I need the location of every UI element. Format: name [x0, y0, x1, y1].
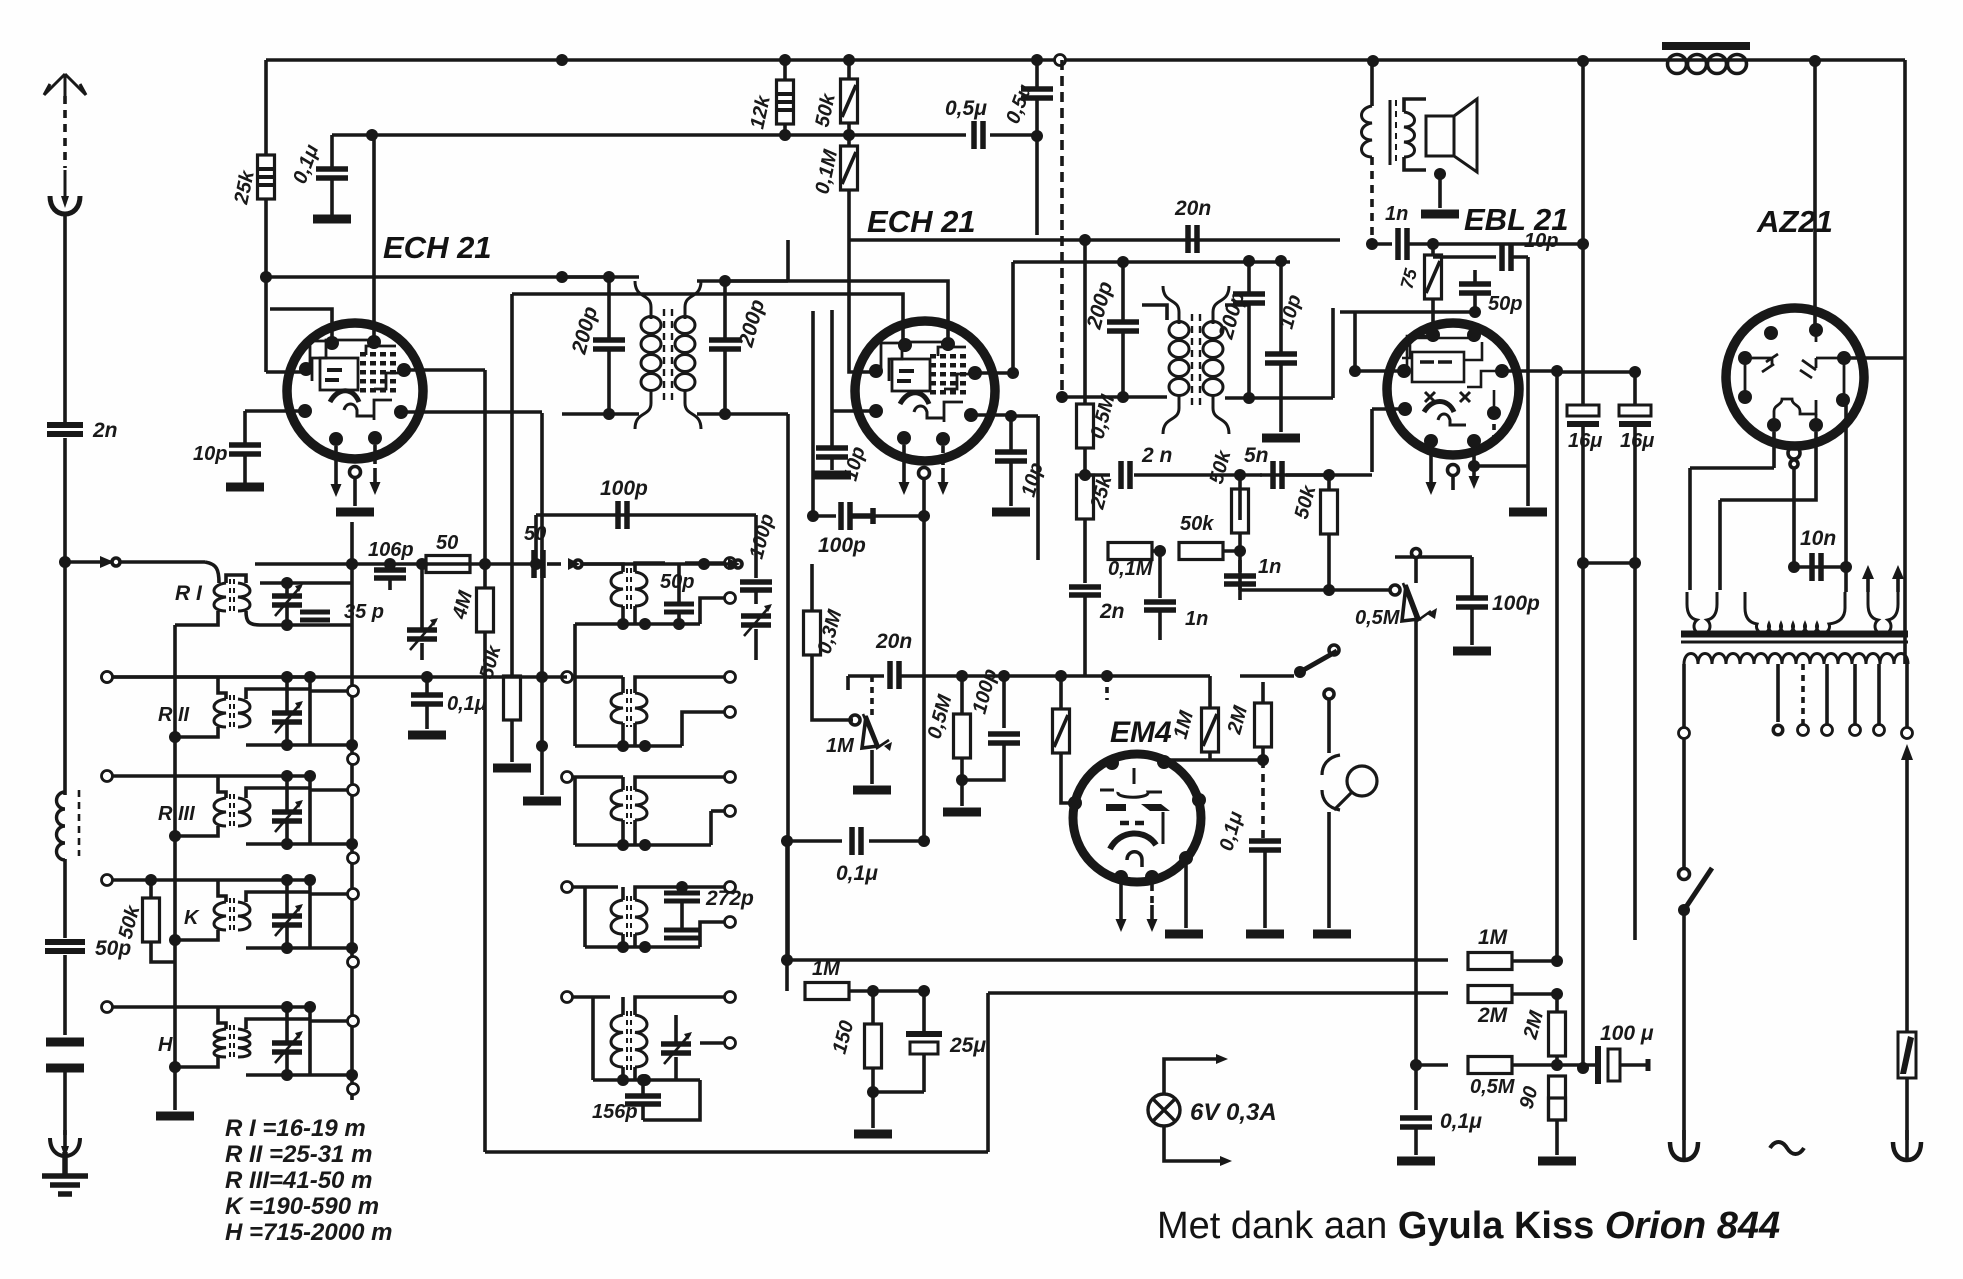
- svg-text:H: H: [158, 1034, 173, 1056]
- wire 0.1u top lead: [330, 135, 334, 168]
- capacitor 10p IF2: [1265, 354, 1297, 363]
- junction: [1809, 55, 1821, 67]
- tube V3 pins: [1397, 328, 1509, 448]
- tube V3 cathode terminal: [1448, 465, 1459, 476]
- wire osc3 top: [573, 775, 623, 779]
- junction 100u: [1577, 1062, 1589, 1074]
- svg-text:1n: 1n: [1185, 608, 1208, 630]
- wire lamp top lead: [1327, 700, 1331, 753]
- coil RII windings: [214, 695, 250, 731]
- capacitor 272p b: [664, 930, 700, 938]
- svg-text:2n: 2n: [92, 419, 118, 442]
- wire antenna down: [63, 562, 67, 795]
- wire 10p V2 column: [830, 310, 834, 446]
- svg-text:200p: 200p: [734, 297, 769, 350]
- wire bottom return up: [986, 993, 990, 1152]
- junction K grid2: [346, 942, 358, 954]
- trimmer osc pad: [741, 604, 772, 636]
- wire 5n out: [1286, 473, 1372, 477]
- wire to fuse: [1905, 760, 1909, 1032]
- terminal row2 left: [102, 672, 113, 683]
- wire antenna row: [65, 560, 205, 564]
- svg-text:2M: 2M: [1223, 702, 1252, 737]
- wire OT primary bottom: [1370, 157, 1374, 244]
- wire RIII input: [113, 774, 310, 778]
- wire K prim return: [175, 930, 218, 940]
- resistor 50k B: [1179, 543, 1223, 560]
- wire V2 triode anode out: [975, 371, 1013, 375]
- wire 50k middle lead: [847, 123, 851, 146]
- svg-text:100p: 100p: [600, 477, 648, 500]
- ground dial lamp: [1313, 932, 1351, 936]
- junction: [639, 1074, 651, 1086]
- switch contact arrows: [568, 558, 582, 570]
- capacitor 0.1u AF: [852, 827, 861, 855]
- wire 4M bottom lead: [483, 632, 487, 660]
- ground 90: [1538, 1159, 1576, 1163]
- wire 1M out: [1512, 959, 1557, 963]
- wire osc3 top right: [680, 775, 724, 779]
- wire 10p IF2 top: [1279, 261, 1283, 352]
- wire K sec bottom: [246, 946, 352, 950]
- wire RIII sw1: [310, 788, 347, 792]
- junction 0.1u pad: [421, 671, 433, 683]
- junction: [1840, 561, 1852, 573]
- capacitor 50p osc: [664, 604, 694, 612]
- wire V1 heater lead left: [334, 446, 338, 470]
- junction: [779, 54, 791, 66]
- wire pot down: [1414, 620, 1418, 680]
- terminal osc row5: [562, 992, 573, 1003]
- wire H sec top: [246, 1019, 310, 1029]
- terminal RIII sw1: [348, 785, 359, 796]
- junction: [779, 129, 791, 141]
- wire 0.3M top lead: [810, 564, 814, 611]
- capacitor 50p antenna: [45, 942, 85, 951]
- wire RII sec bottom: [246, 743, 352, 747]
- wire V2 anode up: [1011, 262, 1015, 373]
- coil osc row5: [611, 1011, 647, 1071]
- junction: [1257, 754, 1269, 766]
- capacitor 10p V2: [816, 448, 848, 457]
- wire 1n left: [1372, 242, 1392, 246]
- svg-text:25k: 25k: [230, 168, 259, 207]
- ground RF bank: [156, 1114, 194, 1118]
- terminal osc row4 top: [725, 882, 736, 893]
- junction: [1056, 391, 1068, 403]
- resistor 50k: [841, 79, 858, 123]
- wire 50p down: [63, 955, 67, 1035]
- wire 16u a bottom rail: [1581, 426, 1585, 1068]
- junction 0.1u AF: [781, 835, 793, 847]
- wire trimmer K leads: [285, 880, 289, 948]
- wire osc1 bottoms: [623, 606, 635, 624]
- junction: [1427, 238, 1439, 250]
- junction RI grid: [346, 558, 358, 570]
- coil osc row4: [611, 896, 647, 938]
- power transformer core: [1681, 634, 1908, 642]
- junction K grid bus: [304, 874, 316, 886]
- junction: [1551, 988, 1563, 1000]
- wire 100p EBL row: [1395, 555, 1472, 559]
- junction: [1469, 306, 1481, 318]
- wire gnd rail right: [1633, 563, 1637, 940]
- heater arrow EM4 left: [1116, 905, 1127, 932]
- svg-text:R II =25-31 m: R II =25-31 m: [225, 1141, 372, 1168]
- capacitor 2n b: [1069, 587, 1101, 595]
- svg-text:K =190-590 m: K =190-590 m: [225, 1193, 379, 1220]
- wire H prim top: [218, 1007, 226, 1029]
- wire heater lead b: [1896, 577, 1900, 592]
- junction: [384, 558, 396, 570]
- wire 200p IF2a top: [1121, 262, 1125, 320]
- wire IF1 cap1 top lead: [607, 277, 611, 338]
- wire heater tap down: [1792, 468, 1796, 567]
- band switch lever: [1294, 645, 1339, 678]
- junction: [536, 740, 548, 752]
- wire EBL heater r: [1472, 448, 1476, 462]
- wire right edge vertical: [1903, 60, 1907, 358]
- junction: [918, 510, 930, 522]
- junction: [617, 839, 629, 851]
- terminal tap2: [1798, 725, 1809, 736]
- wire 90 bottom: [1555, 1120, 1559, 1155]
- heater arrow EM4 right: [1147, 905, 1158, 932]
- earth plug hook: [50, 1130, 80, 1158]
- wire 200p IF2a bottom: [1121, 331, 1125, 397]
- svg-text:0,3M: 0,3M: [814, 606, 847, 656]
- wire 50k bottom lead: [151, 942, 175, 962]
- capacitor RI padding: [300, 612, 330, 620]
- wire 1n b bottom: [1158, 610, 1162, 640]
- wire 100pb lead: [754, 590, 758, 604]
- svg-text:0,1M: 0,1M: [1108, 558, 1154, 580]
- wire 50p leads: [677, 563, 681, 624]
- wire 10p IF2 bottom: [1279, 363, 1283, 432]
- wire 0.1u pad top: [425, 677, 429, 694]
- wire IF2 right up: [1331, 308, 1335, 398]
- svg-text:2 n: 2 n: [1141, 444, 1172, 467]
- svg-text:4M: 4M: [448, 587, 477, 622]
- wire 16u join: [1583, 561, 1635, 565]
- junction: [1551, 1059, 1563, 1071]
- wire OT primary top: [1370, 62, 1374, 106]
- junction: [698, 558, 710, 570]
- wire bias to ground: [871, 1092, 875, 1128]
- wire osc mixer row: [255, 562, 533, 566]
- coil osc row3: [611, 786, 647, 824]
- resistor 50 ohm: [426, 556, 470, 573]
- junction: [1577, 55, 1589, 67]
- junction: [1629, 557, 1641, 569]
- wire RIII prim top: [218, 776, 226, 798]
- wire osc4 top right: [682, 885, 724, 889]
- junction: [281, 1001, 293, 1013]
- capacitor 100p b: [740, 582, 772, 590]
- wire osc3 bottoms: [623, 820, 635, 845]
- junction: [719, 408, 731, 420]
- svg-text:50k: 50k: [1206, 448, 1236, 487]
- wire osc boundary down: [483, 660, 487, 1152]
- wire IF1 bottom left: [562, 412, 639, 416]
- wire 4M top lead: [483, 370, 487, 588]
- tube V1 ECH21 internal electrodes: [310, 340, 402, 420]
- junction H bus: [169, 1061, 181, 1073]
- wire osc5 left link: [591, 997, 595, 1080]
- svg-text:R II: R II: [158, 704, 190, 726]
- ground 0.1u: [313, 217, 351, 221]
- wire RII prim return: [175, 727, 218, 737]
- wire RF bank left bus: [173, 625, 177, 1110]
- wire IF1 top right: [697, 279, 788, 283]
- svg-text:200p: 200p: [1214, 289, 1249, 342]
- wire 25k bottom: [1083, 519, 1087, 551]
- tube V2 grid dots: [930, 354, 966, 395]
- junction: [1079, 469, 1091, 481]
- wire V2 triode grid: [849, 240, 876, 372]
- junction: [719, 275, 731, 287]
- terminal osc row2 top: [725, 672, 736, 683]
- junction 0.5M if: [1079, 234, 1091, 246]
- wire RII input: [113, 675, 310, 679]
- IF transformer 1 windings: [635, 281, 701, 429]
- wire 2n branch: [1085, 473, 1110, 477]
- wire 1n b stem: [1158, 551, 1162, 598]
- wire B+ top bus: [266, 58, 1685, 62]
- junction: [281, 619, 293, 631]
- wire 10p top lead: [243, 411, 247, 444]
- junction: [1577, 238, 1589, 250]
- svg-text:2M: 2M: [1519, 1007, 1548, 1042]
- wire heater lead a: [1866, 577, 1870, 592]
- wire to earth: [63, 1072, 67, 1135]
- junction: [843, 129, 855, 141]
- resistor 75: [1425, 255, 1442, 299]
- power transformer HV winding left: [1687, 592, 1717, 634]
- wire osc1 bottom row: [575, 622, 700, 626]
- junction: [1005, 410, 1017, 422]
- wire lamp bottom lead: [1327, 812, 1331, 928]
- capacitor 0.5u: [974, 121, 983, 149]
- volume pot 1M arrow: [850, 714, 892, 751]
- wire V1 osc anode lead: [401, 410, 542, 414]
- capacitor 2n antenna: [47, 425, 83, 434]
- svg-text:5n: 5n: [1244, 444, 1269, 467]
- wire screen bus: [332, 133, 966, 137]
- junction RII grid bus: [304, 671, 316, 683]
- capacitor 100p EBL: [1456, 598, 1488, 607]
- wire long vertical IF1 to AF bus: [786, 414, 790, 960]
- wire band A: [266, 275, 609, 279]
- wire 0.1M bottom lead: [847, 190, 851, 240]
- wire H input: [113, 1005, 310, 1009]
- wire RII prim top: [218, 677, 226, 699]
- capacitor 200p IF1a: [593, 340, 625, 349]
- capacitor 100p det: [988, 734, 1020, 743]
- power switch: [1678, 868, 1712, 916]
- junction: [956, 774, 968, 786]
- wire EBL row 312: [1340, 310, 1433, 314]
- junction: [639, 941, 651, 953]
- volume pot 0.5M: [1390, 583, 1437, 621]
- wire antenna lead: [63, 96, 67, 168]
- junction: [1243, 255, 1255, 267]
- resistor 0.1M det: [1108, 543, 1152, 560]
- wire osc left links: [573, 677, 577, 845]
- resistor 50k A: [1232, 489, 1249, 533]
- wire 2M vert bottom: [1555, 1056, 1559, 1065]
- capacitor 200p IF2b: [1233, 294, 1265, 303]
- wire V1 heater lead right: [373, 445, 377, 468]
- wire EBL heater l: [1429, 448, 1433, 468]
- wire 50kA bottom: [1238, 533, 1242, 572]
- svg-text:50k: 50k: [811, 91, 840, 129]
- wire 25u top lead: [922, 991, 926, 1031]
- wire 2M col link: [1555, 994, 1559, 1012]
- AC tilde: [1770, 1142, 1804, 1154]
- wire lamp bottom arrow lead: [1164, 1126, 1220, 1161]
- wire osc5 top right: [680, 995, 724, 999]
- svg-text:50k: 50k: [115, 903, 145, 942]
- wire 0.1u out bottom: [1414, 1127, 1418, 1155]
- capacitor 156p: [625, 1096, 661, 1104]
- stub: [1555, 1074, 1559, 1078]
- junction: [781, 954, 793, 966]
- wire 20n stub: [846, 676, 850, 690]
- wire 16u b lead: [1633, 372, 1637, 405]
- wire 100p to cathode: [873, 514, 924, 518]
- capacitor 0.1u EM4: [1249, 841, 1281, 850]
- terminal osc row3 top: [725, 772, 736, 783]
- wire trimmer lead: [754, 629, 758, 660]
- wire lamp top arrow lead: [1164, 1059, 1216, 1094]
- stub: [1085, 549, 1086, 553]
- wire 75 top lead: [1431, 244, 1435, 255]
- junction: [1234, 545, 1246, 557]
- junction: [639, 839, 651, 851]
- coil RIII windings: [214, 794, 250, 830]
- svg-text:6V 0,3A: 6V 0,3A: [1190, 1099, 1277, 1126]
- terminal H sw2: [348, 1084, 359, 1095]
- svg-text:0,1μ: 0,1μ: [1216, 809, 1248, 853]
- wire V2 right down: [1036, 416, 1040, 560]
- wire IF2 top right: [1123, 260, 1290, 264]
- trimmer 35p: [407, 618, 438, 650]
- svg-text:1M: 1M: [1478, 926, 1508, 949]
- mains plug pin a: [1670, 1130, 1698, 1160]
- wire EBL left down: [1370, 409, 1374, 472]
- ground osc bus: [523, 799, 561, 803]
- wire 0.1u bottom lead: [330, 178, 334, 216]
- capacitor 1n top: [1398, 228, 1407, 260]
- svg-text:25k: 25k: [1086, 473, 1116, 513]
- wire RIII prim return: [175, 826, 218, 836]
- wire osc1 sec top: [635, 563, 665, 572]
- power transformer secondary winding: [1684, 654, 1908, 665]
- junction: [1366, 238, 1378, 250]
- wire V2 grid3: [832, 409, 876, 413]
- wire osc4 to term: [700, 922, 724, 947]
- ground EM4: [1165, 932, 1203, 936]
- wire 0.5M-25k link: [1083, 448, 1087, 475]
- capacitor 100p osc: [618, 501, 627, 529]
- wire K sw1: [310, 892, 347, 896]
- coil osc row1: [611, 568, 647, 610]
- svg-text:100 μ: 100 μ: [1600, 1022, 1654, 1045]
- wire pot top link: [1414, 557, 1418, 583]
- svg-text:K: K: [184, 907, 200, 929]
- wire EBL cathode out: [1502, 369, 1557, 373]
- wire osc2 top right: [675, 675, 724, 679]
- capacitor 272p: [664, 893, 700, 901]
- tube EM4 pins: [1068, 755, 1206, 884]
- wire osc1 left down: [573, 624, 577, 677]
- svg-text:100p: 100p: [746, 512, 779, 562]
- wire RI secondary bottom: [260, 623, 352, 627]
- svg-text:0,1μ: 0,1μ: [836, 862, 878, 885]
- terminal K sw1: [348, 889, 359, 900]
- wire EBL beam link: [1492, 413, 1496, 440]
- terminal osc row1 top: [725, 558, 736, 569]
- resistor 2M fb: [1468, 986, 1512, 1003]
- ground 100p EBL: [1453, 649, 1491, 653]
- wire osc3 to term: [711, 809, 724, 813]
- svg-text:1M: 1M: [1170, 707, 1199, 741]
- wire osc5b stub: [700, 1041, 724, 1045]
- svg-text:ECH 21: ECH 21: [383, 230, 492, 265]
- terminal tap3: [1822, 725, 1833, 736]
- arrow lamp top: [1216, 1054, 1228, 1064]
- wire RI sec out: [246, 611, 260, 625]
- svg-text:2M: 2M: [1477, 1004, 1508, 1027]
- junction RIII grid bus: [304, 770, 316, 782]
- tube V4 pins: [1738, 323, 1851, 432]
- wire 10n row: [1794, 565, 1846, 569]
- svg-text:50k: 50k: [1291, 483, 1321, 522]
- wire 272p link: [680, 901, 684, 930]
- wire AF pot feed: [1240, 588, 1390, 592]
- svg-text:2n: 2n: [1099, 600, 1125, 623]
- resistor 4M: [477, 588, 494, 632]
- junction 50k top: [145, 874, 157, 886]
- wire speaker return: [1438, 170, 1442, 208]
- junction: [1349, 365, 1361, 377]
- svg-text:20n: 20n: [1174, 197, 1211, 220]
- terminal osc row3b: [725, 806, 736, 817]
- tube EM4 envelope: [1073, 754, 1201, 882]
- junction: [998, 670, 1010, 682]
- wire HV left down: [1688, 468, 1692, 590]
- antenna symbol: [44, 74, 86, 96]
- wire RF bank grid bus: [350, 522, 354, 1100]
- trimmer RIII: [272, 800, 303, 832]
- svg-text:150: 150: [829, 1018, 859, 1056]
- wire trimmer H leads: [285, 1007, 289, 1075]
- capacitor 10n: [1812, 553, 1821, 581]
- resistor 1M EM4 right: [1202, 708, 1219, 752]
- junction: [1367, 55, 1379, 67]
- wire 50kB out: [1223, 549, 1240, 553]
- junction: [956, 670, 968, 682]
- output transformer: [1362, 100, 1415, 165]
- wire 75 bottom lead: [1431, 299, 1435, 335]
- heater arrow V2 left: [899, 468, 910, 495]
- trimmer K: [272, 904, 303, 936]
- wire IF2 bottom left: [1062, 395, 1167, 399]
- wire H prim return: [175, 1057, 218, 1067]
- junction: [1577, 557, 1589, 569]
- ground 0.5M det: [943, 810, 981, 814]
